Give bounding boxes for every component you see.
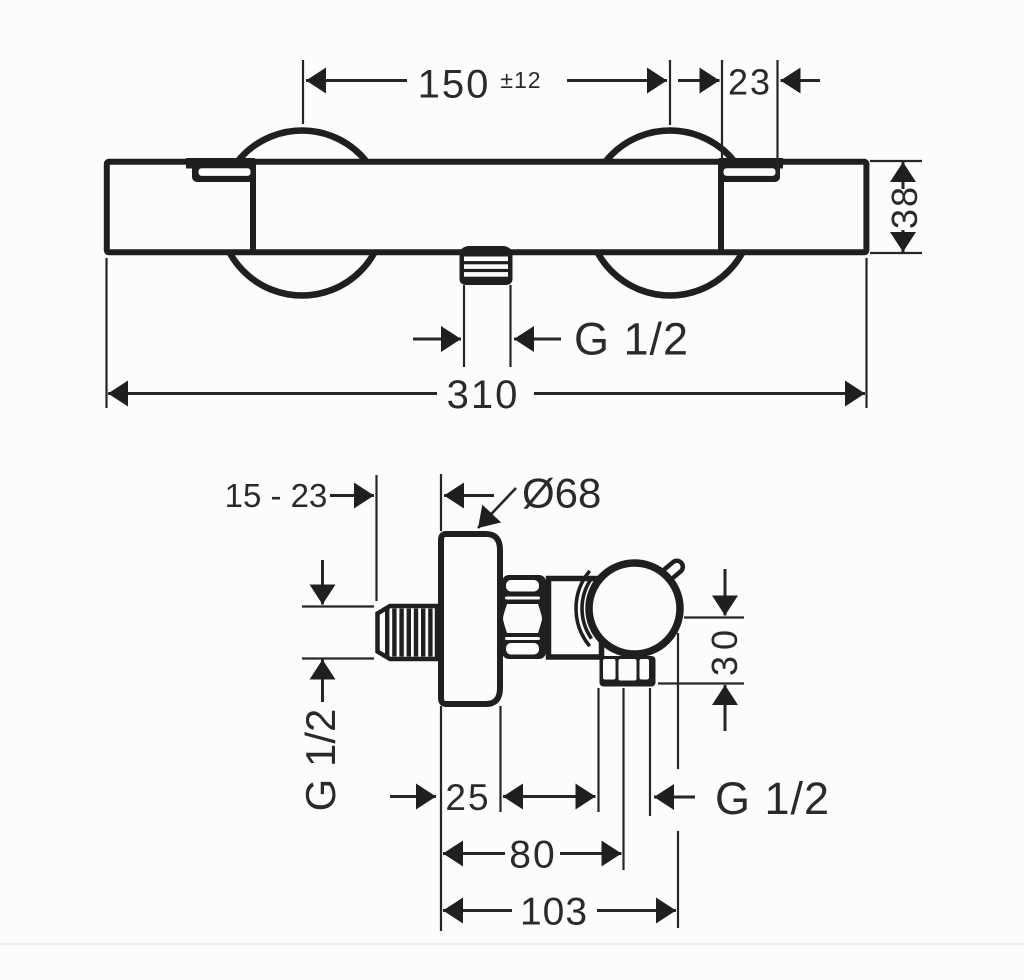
dimension G 1/2 (top view outlet) bbox=[413, 285, 689, 367]
faint scan line bbox=[0, 943, 1024, 945]
body divider left bbox=[250, 162, 256, 252]
dimension 103 bbox=[443, 891, 676, 934]
mixer body bar bbox=[107, 162, 867, 253]
svg-text:103: 103 bbox=[520, 891, 588, 934]
wall plane extension line bbox=[375, 475, 377, 601]
escutcheon face extension line (lower, for 25/80/103) bbox=[440, 706, 442, 931]
wall-bracket slot right bbox=[719, 158, 783, 182]
svg-text:310: 310 bbox=[447, 373, 520, 417]
dimension 23 bbox=[678, 60, 820, 176]
dimension 15 - 23 bbox=[225, 477, 494, 514]
svg-text:150: 150 bbox=[418, 63, 491, 107]
dimension 25 bbox=[390, 777, 596, 818]
svg-text:±12: ±12 bbox=[500, 67, 541, 93]
extension line outlet nut right bbox=[649, 688, 651, 816]
body divider right bbox=[718, 162, 724, 252]
svg-text:80: 80 bbox=[509, 834, 556, 877]
thermostat knob (circle) bbox=[589, 563, 680, 654]
dimension 38 bbox=[870, 161, 925, 253]
wall nipple (threaded) bbox=[378, 606, 438, 659]
dimension 30 bbox=[658, 569, 745, 731]
dimension 310 bbox=[107, 258, 867, 417]
knob skirt arcs bbox=[576, 571, 591, 646]
svg-text:G 1/2: G 1/2 bbox=[574, 314, 689, 365]
valve body (side view) bbox=[549, 579, 602, 658]
bottom outlet stub (threaded, top view) bbox=[460, 246, 513, 285]
svg-text:G 1/2: G 1/2 bbox=[297, 709, 344, 812]
extension line outlet nut left bbox=[597, 688, 599, 812]
escutcheon circle right bbox=[588, 131, 753, 296]
bottom outlet nut bbox=[600, 656, 656, 687]
dimension 150 ±12 bbox=[303, 60, 670, 125]
hex union nut bbox=[502, 575, 546, 659]
svg-text:23: 23 bbox=[728, 62, 772, 103]
svg-text:38: 38 bbox=[884, 185, 925, 229]
knob grip tab bbox=[661, 558, 686, 581]
dimension 80 bbox=[443, 834, 622, 877]
svg-text:25: 25 bbox=[445, 777, 490, 818]
svg-text:30: 30 bbox=[704, 624, 745, 676]
escutcheon face extension line (upper) bbox=[440, 474, 442, 531]
escutcheon disc (side view) bbox=[441, 534, 500, 704]
extension line knob outer edge bbox=[677, 633, 679, 769]
label Ø68 with leader bbox=[478, 470, 601, 529]
extension line outlet centerline bbox=[622, 688, 624, 870]
svg-text:G 1/2: G 1/2 bbox=[715, 773, 830, 824]
svg-text:Ø68: Ø68 bbox=[522, 470, 601, 517]
dimension G 1/2 (wall nipple, left) bbox=[297, 560, 374, 811]
extension line escutcheon rear face bbox=[499, 706, 501, 812]
dimension G 1/2 (bottom outlet) bbox=[654, 773, 830, 824]
escutcheon circle left bbox=[220, 131, 385, 296]
wall-bracket slot left bbox=[186, 158, 255, 182]
svg-text:15 - 23: 15 - 23 bbox=[225, 477, 328, 514]
